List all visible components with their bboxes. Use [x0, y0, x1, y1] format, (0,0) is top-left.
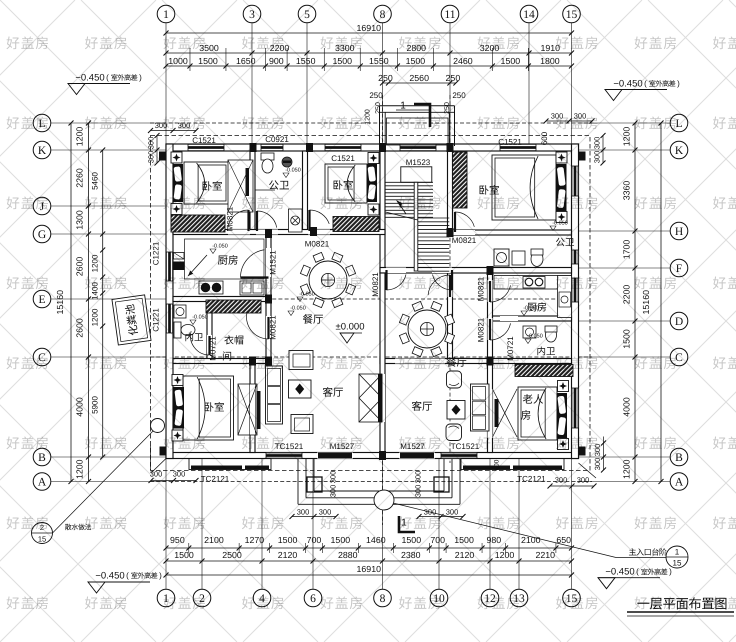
door kitchen2 — [489, 281, 491, 302]
svg-text:300: 300 — [593, 458, 602, 471]
svg-text:700: 700 — [430, 535, 445, 545]
drawing title 一层平面布置图 — [627, 597, 734, 616]
bottom detail dimensions — [166, 547, 572, 549]
door opening kitchen2 — [488, 280, 493, 302]
svg-text:M1521: M1521 — [268, 250, 277, 275]
room label living2 — [412, 401, 432, 411]
kitchen 2 — [494, 276, 572, 318]
bottom bay right TC2121 — [461, 459, 564, 470]
svg-text:1500: 1500 — [331, 535, 351, 545]
bottom segment dimensions — [166, 560, 572, 562]
grid bubble 8 bottom — [374, 589, 392, 607]
svg-text:-0.050: -0.050 — [527, 333, 543, 339]
detail callout 2/15 with leader — [32, 428, 157, 544]
svg-text:A: A — [38, 476, 47, 488]
svg-text:300: 300 — [593, 137, 602, 150]
wall bed2/stair vertical — [380, 151, 385, 273]
dashed centre axis lines — [150, 95, 592, 525]
svg-text:1460: 1460 — [366, 535, 386, 545]
svg-text:D: D — [675, 316, 683, 328]
svg-text:G: G — [38, 229, 46, 241]
level mark -0.450 top-left — [68, 72, 137, 94]
svg-text:300: 300 — [329, 471, 338, 484]
stair bay walls top — [380, 106, 455, 146]
top total dimension 16910 — [166, 32, 572, 34]
svg-text:K: K — [38, 145, 47, 157]
svg-text:980: 980 — [486, 535, 501, 545]
armchair living2 top — [447, 371, 462, 388]
toilet bath1 — [261, 153, 274, 160]
svg-text:2120: 2120 — [278, 550, 298, 560]
svg-text:−0.450: −0.450 — [605, 566, 634, 577]
grid bubble J left — [33, 197, 51, 215]
entrance porch — [298, 459, 460, 511]
window bath right wall — [572, 250, 579, 264]
svg-text:1000: 1000 — [168, 56, 188, 66]
wardrobe hatch bed1 — [171, 215, 225, 232]
svg-text:TC2121: TC2121 — [201, 474, 230, 483]
top detail dimensions — [166, 65, 572, 67]
svg-text:1200: 1200 — [75, 459, 85, 479]
window TC1521 living2 bottom — [441, 453, 477, 459]
window kitchen2 right wall — [572, 278, 579, 302]
door opening bed3 — [454, 230, 476, 235]
window C0921 bath1 top — [261, 144, 283, 151]
door opening cloak-living M0821 — [266, 316, 271, 339]
door opening kitchen M1521 — [266, 248, 271, 277]
svg-text:-0.050: -0.050 — [290, 305, 306, 311]
svg-text:B: B — [675, 452, 683, 464]
svg-text:−0.450: −0.450 — [75, 72, 104, 83]
elder room door leaf — [493, 389, 518, 437]
dining table 2 round — [408, 310, 446, 348]
porch column left — [307, 477, 322, 492]
coffee table living1 — [289, 380, 312, 398]
svg-text:250: 250 — [446, 73, 461, 83]
svg-text:300: 300 — [414, 471, 423, 484]
wall corridor left vertical — [448, 273, 453, 364]
window C1521 bed3 top — [500, 144, 536, 151]
wall cloakroom right vertical — [266, 302, 271, 364]
bottom bay left TC2121 — [189, 459, 271, 470]
svg-text:−0.450: −0.450 — [613, 78, 642, 89]
svg-text:C1221: C1221 — [151, 241, 160, 265]
svg-text:16910: 16910 — [357, 564, 382, 574]
room label kitchen2 — [527, 302, 546, 311]
svg-text:3360: 3360 — [622, 181, 632, 201]
svg-text:C0921: C0921 — [265, 135, 289, 144]
wall bedroomBL/living1 vertical — [250, 364, 255, 453]
bath top-right fixtures — [494, 249, 543, 267]
svg-text:TC2121: TC2121 — [517, 474, 546, 483]
wardrobe hatch cloakroom — [206, 300, 261, 313]
svg-text:250: 250 — [452, 91, 466, 100]
svg-text:C1221: C1221 — [151, 308, 160, 332]
door bed3 — [454, 212, 456, 232]
svg-text:M0821: M0821 — [225, 206, 234, 231]
room label bath2 — [185, 333, 203, 342]
door opening dining-corridor — [448, 275, 453, 297]
right detail dimensions — [634, 123, 636, 482]
bed bedroom bottom-left — [183, 376, 234, 440]
double door living1-living2 — [359, 374, 383, 422]
svg-text:M0821: M0821 — [268, 315, 277, 340]
wall kitchen right vertical — [266, 232, 271, 302]
room label bath1 — [269, 180, 289, 189]
door opening bath1 — [256, 230, 278, 235]
svg-text:(: ( — [126, 571, 129, 580]
shoe cabinet hatch stair — [453, 152, 468, 208]
svg-text:F: F — [676, 263, 682, 275]
svg-text:1200: 1200 — [622, 459, 632, 479]
svg-text:1200: 1200 — [75, 127, 85, 147]
grid bubble G left — [33, 225, 51, 243]
grid bubble L right — [670, 114, 688, 132]
svg-text:): ) — [139, 73, 142, 82]
grid bubble 15 top — [563, 5, 581, 23]
grid bubble 11 top — [441, 5, 459, 23]
svg-text:1200: 1200 — [495, 550, 515, 560]
door opening bath3 inner — [500, 316, 518, 321]
room label living1 — [323, 387, 343, 397]
sofa living2 — [471, 384, 490, 431]
structural columns — [159, 143, 586, 460]
room label bath-right — [556, 238, 574, 246]
svg-text:−0.450: −0.450 — [95, 570, 124, 581]
bedroomBL door panels — [238, 384, 261, 435]
door bath1 — [256, 211, 258, 231]
room label bedroom3 — [480, 185, 499, 195]
kitchen floor outline — [185, 239, 265, 279]
dining table 1 round — [309, 261, 347, 299]
room label bedroom1 — [203, 181, 222, 191]
svg-text:-0.050: -0.050 — [523, 305, 539, 311]
grid bubble A right — [670, 473, 688, 491]
door kitchen M1521 — [241, 276, 269, 278]
svg-text:300: 300 — [593, 151, 602, 164]
grid bubble C left — [33, 348, 51, 366]
svg-text:1500: 1500 — [402, 535, 422, 545]
svg-text:1270: 1270 — [245, 535, 265, 545]
svg-text:1: 1 — [675, 547, 680, 556]
svg-text:15: 15 — [566, 9, 578, 21]
door opening living1-living2 M1527 — [380, 374, 385, 422]
svg-text:1500: 1500 — [454, 535, 474, 545]
grid bubble K left — [33, 141, 51, 159]
window C1521 bed2 top — [325, 144, 361, 151]
grid bubble 15 bottom — [563, 589, 581, 607]
grid bubble L left — [33, 114, 51, 132]
svg-text:): ) — [677, 79, 680, 88]
wall corridor right vertical grid12 — [488, 273, 493, 364]
left detail dimensions — [88, 123, 90, 482]
svg-text:300: 300 — [297, 508, 310, 517]
grid bubble E left — [33, 290, 51, 308]
grid bubble 5 top — [298, 5, 316, 23]
svg-text:3500: 3500 — [199, 43, 219, 53]
door opening cloak M0721 — [207, 335, 212, 355]
grid bubble F right — [670, 259, 688, 277]
wall C line left section — [173, 359, 271, 364]
bath3 fixtures — [523, 326, 557, 342]
grid bubble D right — [670, 312, 688, 330]
wall kitchen bottom — [173, 297, 271, 302]
svg-text:TC1521: TC1521 — [451, 442, 480, 451]
svg-text:2500: 2500 — [222, 550, 242, 560]
grid bubble 3 top — [243, 5, 261, 23]
grid bubble 12 bottom — [481, 589, 499, 607]
svg-text:±0.000: ±0.000 — [336, 321, 365, 332]
bed elder room — [518, 387, 557, 440]
level mark -0.450 bottom-right — [598, 566, 667, 588]
svg-text:K: K — [675, 145, 684, 157]
svg-text:B: B — [38, 452, 46, 464]
door opening bed1 — [228, 230, 250, 235]
window TC1521 living1 bottom — [266, 453, 302, 459]
grid bubble 10 bottom — [430, 589, 448, 607]
svg-text:M0821: M0821 — [476, 317, 485, 342]
exterior wall top — [166, 144, 579, 151]
wall bath1/bed2 vertical — [303, 151, 308, 232]
wall below top bedrooms — [173, 230, 385, 235]
svg-text:300: 300 — [574, 112, 587, 121]
top segment dimensions — [166, 52, 572, 54]
wall living2/elder grid12 lower — [488, 364, 493, 453]
corner 300 offset dimensions — [147, 112, 606, 519]
grid bubble 14 top — [520, 5, 538, 23]
kitchen slope arrow 1% — [188, 255, 207, 276]
living room 1 furniture — [266, 351, 314, 434]
room label kitchen1 — [218, 255, 238, 265]
door opening bedroomBL — [250, 384, 255, 435]
hatched wardrobes — [171, 152, 573, 377]
room label cloakroom — [224, 335, 243, 344]
door opening bed2 — [308, 230, 330, 235]
kitchen double sink — [240, 281, 264, 295]
door bed2 — [308, 210, 310, 231]
kitchen stove — [199, 281, 223, 294]
door opening stairhall-corridor — [432, 268, 452, 274]
window bed3 right wall — [572, 166, 579, 196]
door cloak-living — [267, 317, 269, 339]
svg-text:M1523: M1523 — [406, 158, 431, 167]
svg-text:2600: 2600 — [75, 257, 85, 277]
svg-text:4000: 4000 — [622, 397, 632, 417]
svg-text:1200: 1200 — [90, 308, 99, 326]
svg-text:250: 250 — [378, 73, 393, 83]
svg-text:15: 15 — [38, 535, 46, 544]
door opening elder room — [488, 389, 493, 438]
grid bubble 1 bottom — [157, 589, 175, 607]
left mid dimensions 5460/5900 — [90, 148, 105, 460]
svg-text:1500: 1500 — [174, 550, 194, 560]
door stairhall left — [385, 270, 387, 290]
svg-text:2200: 2200 — [622, 285, 632, 305]
kitchen 1 — [174, 239, 265, 295]
grid axis extension lines — [51, 23, 670, 589]
exterior wall bottom — [166, 453, 579, 459]
swing doors — [190, 210, 510, 355]
window C1221 kitchen left wall — [166, 252, 173, 281]
rain pipe circle — [151, 419, 165, 433]
main entrance leader 主入口台阶 — [393, 503, 688, 568]
svg-text:11: 11 — [444, 9, 455, 21]
shower partition bath1 — [255, 189, 275, 191]
svg-text:5460: 5460 — [90, 172, 99, 190]
porch column right — [434, 477, 449, 492]
windows and entry doors — [166, 144, 579, 459]
svg-text:1700: 1700 — [622, 240, 632, 260]
level mark -0.450 top-right — [605, 78, 675, 100]
svg-text:1550: 1550 — [296, 56, 316, 66]
door opening bath3 — [488, 318, 493, 340]
svg-text:8: 8 — [380, 593, 386, 605]
window C1521 bed1 top — [188, 144, 224, 151]
bottom window bays — [189, 459, 564, 471]
svg-text:E: E — [38, 294, 45, 306]
svg-text:M0821: M0821 — [371, 272, 380, 297]
svg-text:5900: 5900 — [90, 396, 99, 414]
wardrobe hatch elder room — [515, 365, 573, 377]
room label elder — [523, 394, 543, 404]
grid bubble B right — [670, 448, 688, 466]
svg-text:-0.050: -0.050 — [212, 243, 228, 249]
room label bedroomBL — [205, 402, 224, 412]
svg-text:1650: 1650 — [236, 56, 256, 66]
svg-text:1500: 1500 — [278, 535, 298, 545]
svg-text:2100: 2100 — [204, 535, 224, 545]
bath2 fixtures — [174, 305, 195, 338]
svg-text:300: 300 — [173, 470, 186, 479]
window elder right wall — [572, 388, 579, 428]
grid bubble 6 bottom — [304, 589, 322, 607]
window M1523 stair bay — [400, 144, 436, 151]
svg-text:900: 900 — [269, 56, 284, 66]
coffee table living2 — [447, 401, 465, 420]
svg-text:2560: 2560 — [409, 73, 429, 83]
mirror unit bedroom1 — [228, 160, 253, 212]
grid bubble 13 bottom — [510, 589, 528, 607]
door opening stairhall-dining — [386, 268, 406, 274]
wall stairhall bottom / F line — [380, 268, 572, 274]
bay sub dimensions 250 2560 250 — [383, 82, 456, 84]
svg-text:C1521: C1521 — [331, 154, 355, 163]
room label bedroom2 — [334, 180, 353, 190]
svg-text:2120: 2120 — [455, 550, 475, 560]
room label bath3 — [537, 347, 555, 356]
section cut 1 bottom — [399, 516, 415, 532]
svg-text:-0.050: -0.050 — [552, 220, 568, 226]
svg-text:300: 300 — [577, 476, 590, 485]
grid bubble B left — [33, 448, 51, 466]
level mark -0.450 bottom-left — [88, 570, 157, 593]
wall bath2/cloak vertical — [207, 302, 212, 364]
svg-text:M0821: M0821 — [452, 236, 477, 245]
svg-text:1400: 1400 — [90, 282, 99, 300]
wall kitchen2/bath3 D line — [493, 316, 572, 321]
svg-text:-0.050: -0.050 — [192, 314, 208, 320]
bed bedroom1 top-left — [184, 162, 229, 204]
wall bed1/bath1 vertical — [250, 151, 255, 232]
svg-text:1: 1 — [163, 9, 169, 21]
entry door M1527 right leaf — [399, 453, 435, 459]
grid bubble C right — [670, 348, 688, 366]
room label dining2 — [446, 357, 466, 367]
svg-text:300: 300 — [147, 151, 156, 164]
svg-text:300: 300 — [551, 112, 564, 121]
svg-text:16910: 16910 — [357, 23, 382, 33]
armchair living2 bottom — [446, 424, 462, 441]
septic tank 化粪池 — [112, 295, 151, 345]
room label dining1 — [303, 314, 323, 324]
svg-text:300: 300 — [319, 508, 332, 517]
staircase — [386, 167, 450, 271]
bottom total dimension 16910 — [166, 574, 572, 576]
svg-text:A: A — [675, 476, 684, 488]
right total dimension 15160 — [660, 123, 662, 482]
svg-text:(: ( — [106, 73, 109, 82]
grid bubble 8 top — [374, 5, 392, 23]
wardrobe hatch bed2 — [333, 217, 379, 232]
svg-text:15: 15 — [673, 558, 682, 567]
exterior wall left — [166, 144, 173, 459]
door corridor-dining — [449, 275, 451, 297]
svg-text:700: 700 — [307, 535, 322, 545]
building walls — [166, 144, 579, 459]
roof overhang dashed outline — [151, 136, 591, 471]
grid bubble 2 bottom — [193, 589, 211, 607]
svg-text:2600: 2600 — [75, 318, 85, 338]
kitchen left counter units — [174, 253, 185, 260]
sofa living1 — [266, 366, 283, 424]
porch steps — [297, 459, 299, 505]
grid bubble 4 bottom — [253, 589, 271, 607]
basin bath1 — [282, 157, 292, 167]
door cloak M0721 — [208, 336, 210, 355]
svg-text:H: H — [675, 226, 683, 238]
bed bedroom3 top-right — [492, 155, 556, 220]
bath1 fixtures — [255, 153, 302, 232]
svg-text:1300: 1300 — [75, 210, 85, 230]
svg-text:6: 6 — [310, 593, 316, 605]
grid bubble H right — [670, 222, 688, 240]
door bed1 — [247, 210, 249, 231]
exterior wall right — [572, 144, 579, 459]
svg-text:300: 300 — [150, 470, 163, 479]
door opening diningC — [395, 359, 445, 364]
level annotations — [190, 167, 568, 343]
svg-text:15160: 15160 — [55, 290, 65, 315]
svg-text:1550: 1550 — [369, 56, 389, 66]
entry door M1527 left leaf — [317, 453, 353, 459]
left total dimension 15160 — [70, 123, 72, 482]
wall below bed3 — [453, 230, 572, 235]
svg-text:1500: 1500 — [198, 56, 218, 66]
wall living1/living2 grid8 lower — [380, 273, 385, 453]
svg-text:C1521: C1521 — [192, 136, 216, 145]
svg-text:-0.050: -0.050 — [299, 291, 315, 297]
wall stair/bed3 vertical — [448, 151, 453, 235]
grid bubble A left — [33, 473, 51, 491]
svg-text:-0.050: -0.050 — [285, 167, 301, 173]
svg-text:C1521: C1521 — [498, 137, 522, 146]
door bath3 — [489, 319, 491, 340]
svg-text:14: 14 — [523, 9, 535, 21]
svg-text:2260: 2260 — [75, 168, 85, 188]
section cut 1 top — [396, 101, 430, 128]
window C1221 bath2 left wall — [166, 304, 173, 333]
grid bubble 1 top — [157, 5, 175, 23]
